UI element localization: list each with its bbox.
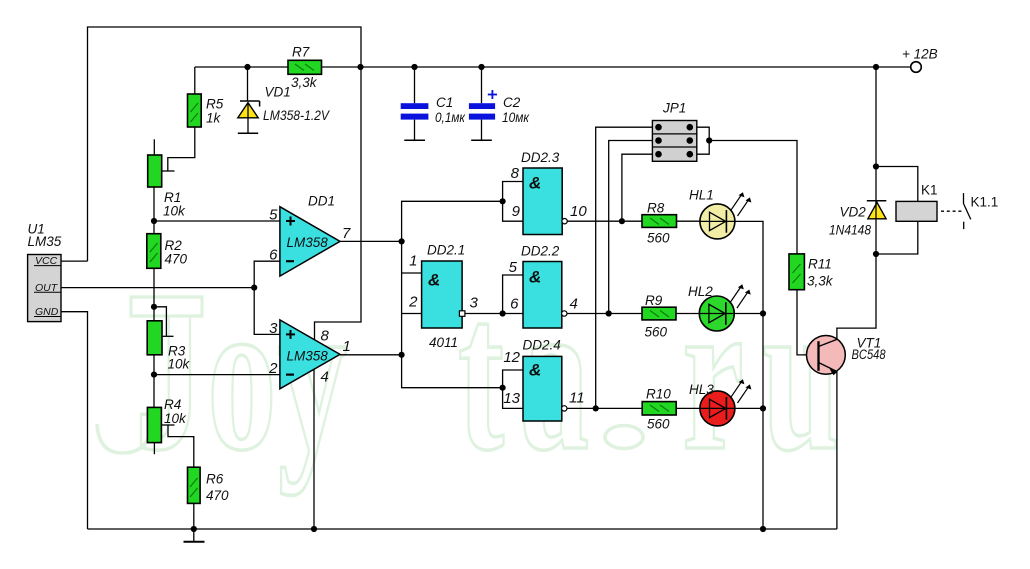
svg-text:JP1: JP1 xyxy=(662,101,686,116)
wire R1 wiper T-bar xyxy=(162,170,175,172)
wire DD2.4 output 11 to R10 xyxy=(567,407,642,409)
wire DD2.3 input bracket pins 8-9 xyxy=(503,182,523,222)
NAND gate DD2.3 xyxy=(511,150,588,235)
svg-text:10k: 10k xyxy=(164,411,187,426)
wire GND stub U1 down left side xyxy=(61,312,88,529)
svg-text:&: & xyxy=(529,174,541,193)
node VD2 top xyxy=(873,163,879,169)
wire U1 OUT to op-amp inputs xyxy=(61,287,254,289)
svg-text:LM35: LM35 xyxy=(28,234,62,249)
svg-text:DD2.1: DD2.1 xyxy=(427,243,465,258)
svg-text:K1.1: K1.1 xyxy=(971,195,999,210)
svg-text:DD2.3: DD2.3 xyxy=(521,150,560,165)
wire HL1 right to cathode bus xyxy=(735,221,763,529)
wire HL3 right to cathode bus xyxy=(734,407,763,409)
node JP1 right common xyxy=(706,137,712,143)
capacitor C1 xyxy=(401,67,466,140)
svg-text:R10: R10 xyxy=(646,387,671,402)
wire DD1 pin6 / DD1.2 pin3 bracket xyxy=(254,261,280,334)
resistor R9 xyxy=(642,293,676,340)
resistor R6 xyxy=(188,467,230,503)
svg-text:6: 6 xyxy=(269,247,278,264)
wire DD2.1 output 3 xyxy=(465,313,503,315)
wire DD2.1 pin1 stub xyxy=(402,272,422,274)
wire JP1 row1 left to line 11 xyxy=(596,127,653,408)
node HL2 cathode bus xyxy=(760,310,766,316)
+12V supply terminal xyxy=(902,47,938,73)
svg-text:OUT: OUT xyxy=(35,282,59,294)
LED HL3 xyxy=(689,379,751,426)
svg-text:GND: GND xyxy=(35,306,59,318)
relay contact K1.1 xyxy=(941,193,998,229)
wire R6 bottom to rail xyxy=(193,503,195,529)
node DD2.4 input bracket xyxy=(500,385,506,391)
svg-text:DD2.4: DD2.4 xyxy=(523,338,561,353)
svg-text:R7: R7 xyxy=(292,45,310,60)
wire R2 bottom to R3 top xyxy=(153,268,155,321)
diode VD2 1N4148 xyxy=(829,201,886,238)
wire R4 bottom stub xyxy=(153,443,155,455)
svg-text:0,1мк: 0,1мк xyxy=(435,110,466,125)
resistor R7 xyxy=(288,45,322,91)
svg-text:3,3k: 3,3k xyxy=(291,75,318,90)
svg-text:VCC: VCC xyxy=(35,255,58,267)
svg-text:10мк: 10мк xyxy=(502,110,530,125)
svg-text:10: 10 xyxy=(570,203,587,220)
svg-text:13: 13 xyxy=(503,390,520,407)
NAND gate DD2.1 xyxy=(408,243,478,351)
node R6 / rail xyxy=(191,526,197,532)
svg-text:HL2: HL2 xyxy=(688,284,713,299)
watermark Joyta.ru xyxy=(135,252,840,496)
svg-text:LM358: LM358 xyxy=(287,349,329,364)
ground xyxy=(184,529,205,542)
wire HL2 right to cathode bus xyxy=(734,313,763,315)
wire JP1 row2 left to line 4 xyxy=(609,141,653,314)
svg-text:3: 3 xyxy=(470,295,479,312)
svg-text:5: 5 xyxy=(509,259,518,276)
capacitor C2 xyxy=(469,67,530,140)
wire DD2.2 input bracket pins 5-6 xyxy=(503,275,523,314)
svg-text:+ 12В: + 12В xyxy=(902,47,938,62)
svg-text:8: 8 xyxy=(321,328,330,345)
wire gate feed vertical with branches to DD2.3 and DD2.4 xyxy=(402,201,502,387)
op-amp DD1 (LM358 first half) xyxy=(269,194,351,277)
NAND gate DD2.4 xyxy=(503,338,584,422)
resistor R10 xyxy=(642,387,676,432)
node cathode bus / rail xyxy=(760,526,766,532)
wire +12V rail xyxy=(195,66,911,68)
node JP1 row2 / line4 xyxy=(606,310,612,316)
wire R4 wiper tap to R6 xyxy=(168,425,194,467)
svg-text:6: 6 xyxy=(510,296,519,313)
wire JP1 row3 left to line 10 xyxy=(622,154,653,221)
wire R11 bottom to VT1 base xyxy=(797,290,819,355)
sensor U1 LM35 xyxy=(28,222,62,322)
wire R10 to HL3 xyxy=(676,407,700,409)
NAND gate DD2.2 xyxy=(509,244,578,329)
resistor R8 xyxy=(642,201,677,246)
svg-text:9: 9 xyxy=(512,203,521,220)
wire R1 top stub xyxy=(153,139,155,155)
wire DD1.2 output 1 xyxy=(340,354,402,356)
node DD2.2 input bracket xyxy=(500,310,506,316)
node R2/R3 divider xyxy=(151,304,157,310)
svg-text:VD2: VD2 xyxy=(840,205,867,220)
wire R3 wiper tap xyxy=(154,307,166,337)
resistor R1 xyxy=(148,155,186,219)
node DD1.2 pin4 / rail xyxy=(311,526,317,532)
svg-text:1N4148: 1N4148 xyxy=(829,223,871,238)
wire VT1 emitter to rail xyxy=(836,372,838,530)
svg-text:7: 7 xyxy=(342,225,351,242)
node C1/rail xyxy=(411,64,417,70)
svg-text:&: & xyxy=(529,361,541,380)
wire relay K1 bottom connection xyxy=(876,221,918,254)
node C2/rail xyxy=(478,64,484,70)
wire DD2.3 output 10 to R8 xyxy=(567,220,642,222)
svg-text:5: 5 xyxy=(269,207,278,224)
resistor R3 xyxy=(147,321,190,372)
svg-text:DD1: DD1 xyxy=(308,194,335,209)
svg-text:LM358: LM358 xyxy=(287,235,329,250)
svg-text:BC548: BC548 xyxy=(852,347,886,362)
node +12V branch xyxy=(873,64,879,70)
wire R5 riser to rail xyxy=(194,67,196,94)
svg-text:R6: R6 xyxy=(206,472,224,487)
resistor R2 xyxy=(147,234,188,269)
wire bottom ground rail xyxy=(88,528,837,530)
zener diode VD1 LM358-1.2V xyxy=(238,85,331,134)
svg-text:1: 1 xyxy=(343,338,351,355)
wire DD2.1 pin2 stub xyxy=(402,313,422,315)
svg-text:2: 2 xyxy=(268,360,278,377)
svg-text:470: 470 xyxy=(165,252,188,267)
op-amp DD1.2 (LM358 second half) xyxy=(268,320,351,389)
svg-text:C1: C1 xyxy=(436,95,453,110)
svg-text:&: & xyxy=(529,268,541,287)
LED HL2 xyxy=(688,284,751,331)
svg-text:560: 560 xyxy=(647,417,670,432)
node VD2 bottom xyxy=(873,251,879,257)
node HL3 cathode bus xyxy=(760,405,766,411)
node JP1 row3 / line10 xyxy=(619,218,625,224)
node DD1 out7 tee xyxy=(399,238,405,244)
svg-text:R9: R9 xyxy=(645,293,663,308)
svg-text:R5: R5 xyxy=(206,97,224,112)
wire JP1 right bracket xyxy=(697,127,709,154)
wire +12V branch down to VD2/K1 xyxy=(875,67,877,254)
svg-text:1: 1 xyxy=(409,253,417,270)
wire node R1R2 to DD1 pin5 xyxy=(154,220,280,222)
svg-text:K1: K1 xyxy=(921,183,938,198)
watermark period xyxy=(605,426,643,449)
node R3/R4 divider xyxy=(151,372,157,378)
svg-text:DD2.2: DD2.2 xyxy=(521,244,560,259)
LED HL1 xyxy=(689,188,751,239)
wire R9 to HL2 xyxy=(676,313,700,315)
svg-text:560: 560 xyxy=(647,231,670,246)
svg-text:2: 2 xyxy=(408,294,418,311)
svg-text:8: 8 xyxy=(511,165,520,182)
resistor R4 xyxy=(147,397,187,443)
svg-text:470: 470 xyxy=(206,488,229,503)
resistor R11 xyxy=(789,254,834,290)
wire R8 to HL1 xyxy=(677,220,701,222)
node U1 OUT junction xyxy=(251,285,257,291)
node DD2.3 input bracket xyxy=(500,198,506,204)
svg-text:C2: C2 xyxy=(503,95,521,110)
node VD1/rail xyxy=(244,64,250,70)
svg-text:4011: 4011 xyxy=(429,335,458,350)
relay coil K1 xyxy=(896,183,938,222)
wire DD1 output 7 xyxy=(340,240,402,242)
node R7 right / top border xyxy=(357,64,363,70)
svg-text:HL3: HL3 xyxy=(689,382,714,397)
svg-text:R11: R11 xyxy=(808,257,832,272)
svg-text:10k: 10k xyxy=(168,357,191,372)
svg-text:3,3k: 3,3k xyxy=(807,274,834,289)
svg-text:1k: 1k xyxy=(206,111,222,126)
transistor VT1 BC548 xyxy=(807,336,886,376)
wire VCC stub U1 to left rail xyxy=(61,260,88,262)
resistor R5 xyxy=(188,94,224,127)
svg-text:12: 12 xyxy=(503,349,520,366)
svg-text:3: 3 xyxy=(269,320,278,337)
wire relay K1 top connection xyxy=(876,167,918,202)
svg-text:R8: R8 xyxy=(647,201,665,216)
wire DD2.2 output 4 to R9 xyxy=(567,313,642,315)
wire R3 wiper T-bar xyxy=(162,335,174,337)
svg-text:LM358-1.2V: LM358-1.2V xyxy=(263,108,331,123)
svg-text:VD1: VD1 xyxy=(265,85,291,100)
wire VD1 top drop xyxy=(247,67,249,101)
wire JP1 common to R11 top xyxy=(709,141,797,254)
wire node R3R4 to DD1.2 pin2 xyxy=(154,374,280,376)
svg-text:11: 11 xyxy=(569,390,585,407)
svg-text:4: 4 xyxy=(570,296,578,313)
svg-text:R4: R4 xyxy=(164,397,181,412)
svg-text:560: 560 xyxy=(645,325,668,340)
svg-text:10k: 10k xyxy=(163,204,186,219)
wire VT1 collector to relay node xyxy=(837,254,876,339)
node R1/R2 divider xyxy=(151,218,157,224)
wire R1 bottom to R2 top xyxy=(153,187,155,234)
wire R4 wiper T-bar xyxy=(162,424,175,426)
wire R3 bottom to R4 top xyxy=(153,355,155,408)
wire R5 bottom to R1 wiper xyxy=(168,127,195,171)
wire DD2.4 input bracket pins 12-13 xyxy=(503,370,523,408)
node JP1 row1 / line11 xyxy=(593,405,599,411)
jumper block JP1 xyxy=(652,101,696,162)
watermark J embellishment xyxy=(131,297,202,316)
svg-text:HL1: HL1 xyxy=(689,188,714,203)
svg-text:&: & xyxy=(428,271,440,290)
svg-text:4: 4 xyxy=(321,369,329,386)
node DD1.2 out1 tee xyxy=(399,352,405,358)
wire DD1.2 pin4 to rail xyxy=(313,369,315,529)
wire left/top border and drop to pin8 of DD1.2 xyxy=(88,27,362,341)
